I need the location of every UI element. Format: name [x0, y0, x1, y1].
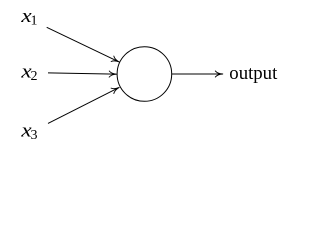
svg-text:output: output — [229, 63, 278, 84]
wire x2 to neuron — [48, 71, 117, 77]
svg-text:3: 3 — [31, 128, 38, 143]
node x1 label — [20, 5, 37, 28]
wire x3 to neuron — [48, 85, 121, 124]
wire x1 to neuron — [47, 27, 121, 64]
node x2 label — [20, 61, 37, 84]
svg-text:2: 2 — [31, 69, 38, 84]
svg-text:1: 1 — [31, 14, 38, 29]
wire neuron to output — [172, 71, 223, 77]
neuron circle — [117, 47, 172, 102]
node x3 label — [20, 120, 37, 143]
